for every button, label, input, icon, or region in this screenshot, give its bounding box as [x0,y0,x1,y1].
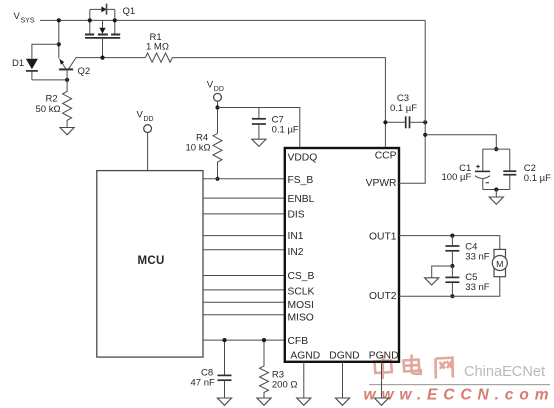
junction C1/C2 bottom [494,187,498,191]
wire C1/C2 top rail [483,148,510,150]
wire DIS [203,213,286,215]
svg-text:V: V [137,110,144,121]
svg-text:V: V [207,80,214,91]
label R2 50 kOhm [36,94,61,115]
junction V_SYS/D1 branch [57,42,61,46]
junction C3 left [383,120,387,124]
svg-text:SYS: SYS [21,17,35,24]
ground R3 [257,398,271,405]
label C2 0.1 uF [524,163,551,184]
junction Q1 drain on V_SYS [113,18,117,22]
svg-text:MOSI: MOSI [288,300,314,311]
svg-text:M: M [496,259,503,269]
wire middle to ground [432,266,453,278]
label R1 1 MOhm [146,32,169,53]
driver IC U1 box [285,148,399,362]
wire R1 to CCP vertical [172,58,385,147]
svg-text:SCLK: SCLK [288,287,315,298]
wire ENBL [203,197,286,199]
motor M1 [492,249,507,276]
wire IN1 [203,235,286,237]
resistor R4 [213,133,222,178]
ground C7 [252,139,266,146]
transistor Q1 (P-MOSFET with body diode) [85,4,120,58]
node V_SYS label [14,11,35,25]
resistor R1 [145,53,172,62]
junction C5 on OUT2 [450,294,454,298]
label C8 47 nF [191,368,215,389]
svg-text:0.1 µF: 0.1 µF [524,173,551,184]
svg-text:50 kΩ: 50 kΩ [36,104,61,115]
svg-text:Q2: Q2 [78,66,91,77]
svg-text:47 nF: 47 nF [191,378,215,389]
svg-text:200 Ω: 200 Ω [272,380,298,391]
capacitor C7 [252,108,266,140]
wire MISO [203,314,286,316]
wire PGND [381,362,383,398]
svg-text:IN2: IN2 [288,247,304,258]
diode D1 [26,59,38,80]
wire FS_B [203,178,286,180]
junction Q2 base / R2 [65,78,69,82]
resistor R2 [63,80,72,128]
svg-text:33 nF: 33 nF [465,282,489,293]
label C1 100 uF [442,163,472,183]
svg-text:FS_B: FS_B [288,175,314,186]
wire D1 bottom to Q2 base [32,79,67,81]
svg-text:DGND: DGND [329,350,359,361]
svg-text:DD: DD [144,116,154,123]
label R3 200 Ohm [272,370,298,391]
svg-text:33 nF: 33 nF [465,252,489,263]
junction R4 / FS_B [215,177,219,181]
wire VPWR to C1/C2 [425,135,496,149]
capacitor C1 (electrolytic) [475,149,490,189]
wire V_DD to MCU [147,133,149,171]
wire IN2 [203,249,286,251]
svg-text:OUT1: OUT1 [369,231,397,242]
label C7 0.1 uF [272,114,299,135]
svg-text:CFB: CFB [288,336,309,347]
ground AGND [297,398,311,405]
svg-text:ENBL: ENBL [288,194,315,205]
wire MOSI [203,301,286,303]
label C4 33 nF [465,242,489,263]
node V_DD (pull-up supply) [207,80,224,102]
junction C3 right [423,120,427,124]
ground C4/C5 [425,278,439,285]
svg-text:D1: D1 [12,58,24,69]
电 [404,355,421,374]
ground PGND [374,398,388,405]
svg-text:V: V [14,11,21,22]
svg-text:MISO: MISO [288,313,314,324]
wire to D1 top [32,44,59,58]
junction C1/C2 top [494,147,498,151]
capacitor C3 [385,116,425,128]
svg-text:ChinaECNet: ChinaECNet [464,364,545,380]
svg-text:CS_B: CS_B [288,271,315,282]
wire V_SYS horizontal [40,19,425,21]
capacitor C2 [503,149,516,189]
wire OUT1 [399,236,500,250]
svg-text:AGND: AGND [290,350,320,361]
ground DGND [335,398,349,405]
wire DGND [342,362,344,398]
svg-text:CCP: CCP [375,151,397,162]
wire CFB [203,339,286,341]
wire OUT2 [399,277,500,297]
svg-text:0.1 µF: 0.1 µF [272,124,299,135]
wire SCLK [203,289,286,291]
junction V_SYS/Q2 [57,18,61,22]
svg-text:OUT2: OUT2 [369,291,397,302]
wire CS_B [203,275,286,277]
中 [375,356,392,380]
svg-text:10 kΩ: 10 kΩ [186,143,211,154]
wire to ground [495,190,497,197]
node V_DD (MCU supply) [137,110,154,133]
wire C1/C2 bottom rail [483,189,510,191]
svg-text:VPWR: VPWR [366,178,397,189]
label C5 33 nF [465,272,489,293]
label C1 plus/minus [476,165,489,183]
svg-text:DIS: DIS [288,210,305,221]
wire V_DD down [217,101,219,133]
wire VPWR [399,20,425,183]
ground C1/C2 [489,197,503,204]
junction Q1 gate [100,56,104,60]
svg-text:DD: DD [214,86,224,93]
capacitor C4 [445,236,459,266]
svg-text:0.1 µF: 0.1 µF [390,103,417,114]
junction C4 on OUT1 [450,234,454,238]
resistor R3 [260,340,269,398]
svg-text:PGND: PGND [369,350,399,361]
capacitor C8 [218,340,232,398]
svg-text:100 µF: 100 µF [442,172,472,183]
watermark 中电网 ChinaECNet www.ECCN.com [364,355,551,404]
svg-text:VDDQ: VDDQ [288,153,318,164]
wire Q2 collector to R1 [76,57,145,59]
junction Q1 source on V_SYS [88,18,92,22]
junction R3 on CFB [262,338,266,342]
svg-text:MCU: MCU [138,255,165,267]
junction V_DD / C7 rail [215,105,219,109]
wire V_DD rail to VDDQ [218,108,300,147]
wire V_SYS to Q2 emitter vertical [58,20,60,58]
svg-text:1 MΩ: 1 MΩ [146,42,169,53]
label C3 0.1 uF [390,93,417,114]
junction C8 on CFB [222,338,226,342]
transistor Q2 [59,58,76,80]
MCU U2 box [97,171,203,358]
junction C4/C5 middle [450,264,454,268]
svg-text:IN1: IN1 [288,231,304,242]
junction VPWR / C1 branch [423,133,427,137]
svg-text:Q1: Q1 [123,6,136,17]
ground R2 [60,128,74,135]
wire AGND [303,362,305,398]
ground C8 [217,398,231,405]
网 [436,358,453,379]
label R4 10 kOhm [186,133,211,154]
capacitor C5 [445,266,459,296]
